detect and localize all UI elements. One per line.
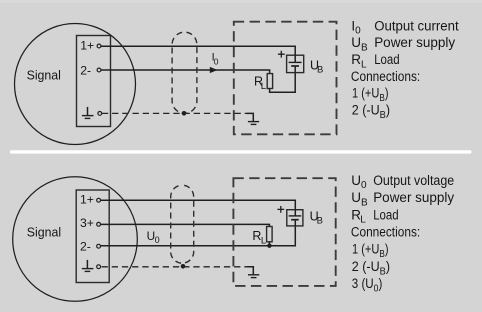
svg-text:Load: Load bbox=[373, 207, 399, 222]
svg-text:Signal: Signal bbox=[27, 68, 61, 83]
svg-text:B: B bbox=[317, 64, 323, 75]
svg-text:0: 0 bbox=[214, 56, 219, 66]
svg-text:L: L bbox=[261, 81, 266, 92]
svg-text:B: B bbox=[317, 216, 323, 227]
svg-text:0: 0 bbox=[155, 235, 160, 245]
svg-text:L: L bbox=[261, 236, 266, 247]
svg-text:Power supply: Power supply bbox=[373, 190, 454, 205]
svg-text:1+: 1+ bbox=[80, 39, 94, 53]
svg-text:2-: 2- bbox=[80, 64, 91, 78]
svg-text:2-: 2- bbox=[80, 239, 91, 253]
svg-text:Signal: Signal bbox=[27, 224, 61, 239]
svg-text:Connections:: Connections: bbox=[351, 225, 420, 240]
svg-text:Power supply: Power supply bbox=[374, 35, 455, 50]
svg-text:Output voltage: Output voltage bbox=[373, 173, 454, 188]
svg-text:Load: Load bbox=[374, 52, 400, 67]
svg-text:1+: 1+ bbox=[80, 193, 94, 207]
svg-text:3+: 3+ bbox=[80, 216, 94, 230]
svg-text:Connections:: Connections: bbox=[351, 69, 420, 84]
svg-text:Output current: Output current bbox=[374, 18, 459, 33]
